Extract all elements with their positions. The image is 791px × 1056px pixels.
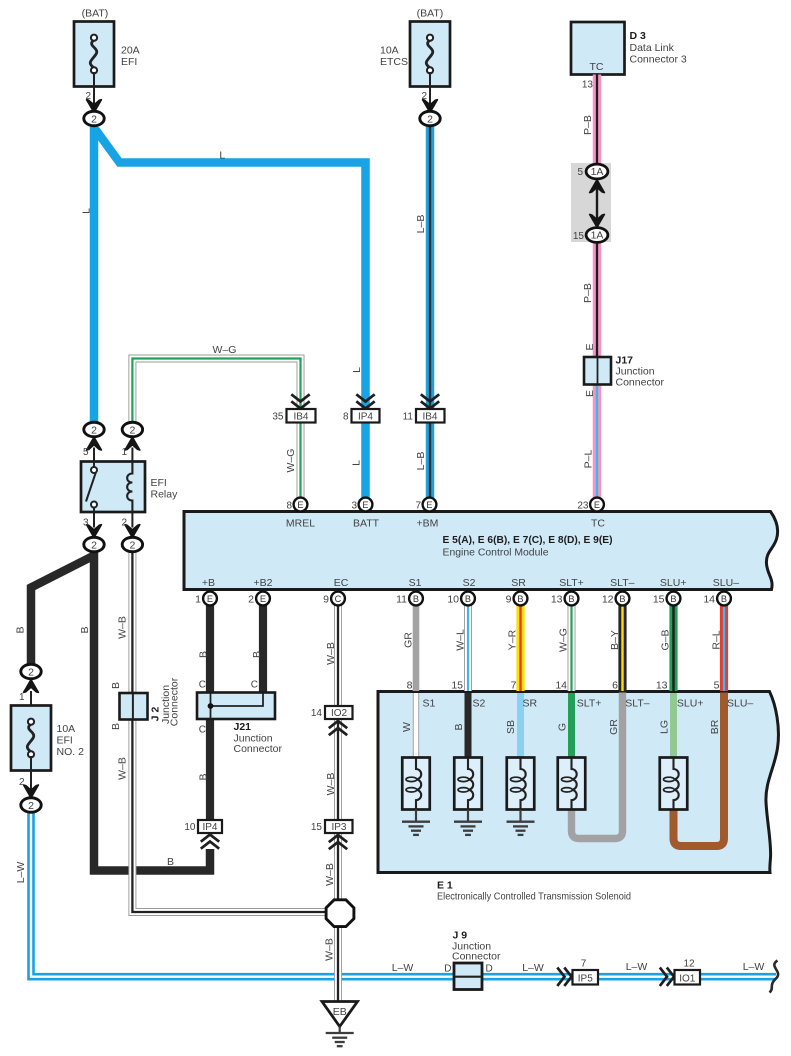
wire W-G from ECM SLT+ pin 13 to E1 pin 14 [568, 606, 576, 692]
wire L branch to IP4 and BATT [96, 130, 366, 499]
svg-text:15: 15 [653, 594, 665, 606]
connector IO2 14 with chevron [325, 706, 353, 719]
svg-text:14: 14 [555, 680, 567, 692]
chevron into IP5 [557, 968, 571, 986]
svg-text:B: B [110, 723, 122, 730]
svg-text:Engine Control Module: Engine Control Module [443, 547, 549, 559]
wire B +B2 from ECM pin 2 to J21 [259, 606, 267, 694]
J21 junction connector box [197, 693, 275, 720]
wire labels inside E1 [401, 719, 721, 735]
svg-text:D: D [486, 964, 493, 975]
E1 internal wire GR U-link solenoid 4 to pin 6 [572, 693, 623, 839]
svg-text:15: 15 [311, 822, 323, 833]
svg-text:TC: TC [590, 61, 604, 73]
svg-text:2: 2 [248, 594, 254, 606]
pin circle SLU- 14 B [717, 592, 731, 606]
wire L thick blue from EFI fuse to relay pin 5 [90, 126, 99, 422]
ground EB triangle [322, 1002, 358, 1047]
svg-text:7: 7 [511, 680, 517, 692]
svg-text:B: B [110, 682, 122, 689]
svg-text:14: 14 [311, 708, 323, 719]
svg-text:S1: S1 [409, 577, 422, 589]
svg-text:2: 2 [28, 800, 34, 812]
E1 internal wire LG to solenoid 5 [670, 693, 677, 758]
svg-text:SR: SR [511, 577, 526, 589]
svg-text:B–Y: B–Y [609, 630, 621, 650]
solenoid coil S1 [402, 758, 430, 810]
arrows below relay pins 3 and 2 [87, 525, 102, 538]
svg-text:1A: 1A [591, 229, 604, 241]
svg-text:2: 2 [28, 666, 34, 678]
svg-text:7: 7 [581, 959, 587, 970]
svg-text:11: 11 [396, 594, 407, 606]
svg-text:Relay: Relay [151, 489, 179, 501]
pin circle +B2 2 E [256, 592, 270, 606]
wire W-L from ECM S2 pin 10 to E1 pin 15 [464, 606, 472, 692]
svg-text:1A: 1A [591, 166, 604, 178]
svg-text:1: 1 [121, 447, 127, 458]
svg-text:E: E [362, 500, 368, 510]
wire B-Y from ECM SLT- pin 12 to E1 pin 6 [618, 606, 626, 692]
svg-text:(BAT): (BAT) [82, 8, 109, 20]
svg-text:10: 10 [184, 822, 196, 833]
svg-text:B: B [453, 723, 465, 730]
svg-text:BATT: BATT [353, 518, 380, 530]
svg-text:S2: S2 [473, 698, 486, 710]
arrow into connector below fuse ETCS [423, 100, 438, 113]
svg-text:1: 1 [195, 594, 201, 606]
svg-text:SLU+: SLU+ [660, 577, 687, 589]
E1 internal wire SB to solenoid 3 [517, 693, 524, 758]
svg-text:E 5(A), E 6(B), E 7(C), E 8(D): E 5(A), E 6(B), E 7(C), E 8(D), E 9(E) [443, 534, 613, 546]
svg-text:B: B [15, 626, 27, 633]
svg-text:E: E [594, 500, 600, 510]
chevron into IO1 [660, 968, 674, 986]
svg-text:IO1: IO1 [679, 973, 696, 984]
svg-text:EC: EC [334, 577, 349, 589]
pin circle SLT- 12 B [616, 592, 630, 606]
wire L-B from ETCS fuse to IB4 and +BM [426, 126, 435, 498]
svg-text:L: L [351, 367, 363, 373]
svg-text:9: 9 [506, 594, 512, 606]
svg-text:B: B [619, 594, 625, 604]
svg-text:E: E [207, 594, 213, 604]
pin circle +BM 7 E [423, 498, 437, 512]
svg-text:2: 2 [427, 113, 433, 125]
pin circle SLU+ 15 B [667, 592, 681, 606]
svg-text:P–L: P–L [583, 450, 595, 469]
wire P-L from J17 to ECM TC pin 23 [593, 385, 602, 499]
fuse 10A ETCS [410, 22, 450, 87]
wire B +B from ECM pin 1 through J21 to IP4 [206, 606, 214, 821]
svg-text:P–B: P–B [582, 115, 594, 135]
svg-text:GR: GR [608, 719, 620, 735]
svg-text:Connector: Connector [616, 377, 665, 389]
svg-text:Connector: Connector [452, 951, 501, 963]
svg-text:E: E [584, 390, 596, 397]
svg-text:8: 8 [407, 680, 413, 692]
node 2 below fuse ETCS [420, 111, 440, 126]
connector IP4 8 with chevron [356, 394, 374, 408]
svg-text:L–W: L–W [743, 961, 765, 973]
svg-text:14: 14 [703, 594, 715, 606]
svg-text:LG: LG [659, 720, 671, 734]
svg-text:+BM: +BM [417, 518, 439, 530]
svg-text:W–G: W–G [213, 344, 237, 356]
svg-text:13: 13 [551, 594, 563, 606]
wire W-B from ECM EC pin 9 through IO2 IP3 octagon to EB ground [334, 606, 342, 1002]
svg-text:W–B: W–B [325, 773, 337, 796]
svg-text:IP4: IP4 [358, 412, 373, 423]
E1 top pin numbers [407, 680, 720, 692]
svg-text:Connector 3: Connector 3 [630, 54, 687, 66]
E1 internal wire BR U-link solenoid 5 to pin 5 [674, 693, 725, 847]
svg-text:W–G: W–G [285, 449, 297, 473]
svg-text:SLT–: SLT– [625, 698, 649, 710]
node labels 1A [591, 166, 604, 242]
svg-text:2: 2 [129, 424, 135, 436]
svg-text:W–B: W–B [325, 642, 337, 665]
svg-text:EFI: EFI [121, 56, 137, 68]
svg-text:15: 15 [573, 231, 585, 242]
ground under solenoid SR [519, 810, 521, 822]
svg-text:IP3: IP3 [331, 822, 346, 833]
svg-text:L: L [351, 460, 363, 466]
wire labels L-W bottom [392, 961, 765, 974]
svg-text:Y–R: Y–R [507, 629, 519, 650]
svg-text:SLU+: SLU+ [677, 698, 704, 710]
node 2 above fuse EFI NO.2 [24, 680, 39, 693]
pin circle S2 10 B [461, 592, 475, 606]
svg-text:W: W [401, 722, 413, 732]
svg-text:15: 15 [451, 680, 463, 692]
svg-text:L–W: L–W [392, 962, 414, 974]
svg-text:IB4: IB4 [422, 412, 437, 423]
arrows into relay top nodes [87, 437, 102, 450]
svg-text:C: C [199, 680, 206, 691]
E1 internal wire G to solenoid 4 [568, 693, 575, 758]
relay coil [127, 462, 132, 513]
E1 solenoid box [378, 692, 778, 873]
svg-text:Electronically Controlled Tran: Electronically Controlled Transmission S… [437, 891, 631, 903]
svg-text:SLT–: SLT– [610, 577, 634, 589]
svg-text:B: B [198, 773, 210, 780]
fuse 20A EFI [74, 22, 114, 87]
svg-text:EB: EB [333, 1006, 347, 1018]
svg-text:W–G: W–G [558, 628, 570, 652]
connector IP5 7 [573, 970, 599, 985]
svg-text:EFI: EFI [151, 477, 167, 489]
svg-text:20A: 20A [121, 45, 140, 57]
svg-text:SLT+: SLT+ [559, 577, 584, 589]
J2 junction connector box [120, 693, 148, 720]
break squiggle at end of L-W wire [770, 961, 779, 993]
node 2 above relay pin 1 [122, 422, 142, 437]
svg-text:L–W: L–W [626, 961, 648, 973]
svg-text:2: 2 [91, 424, 97, 436]
wire labels ECM to E1 [403, 628, 723, 652]
svg-text:S1: S1 [423, 698, 436, 710]
wire B branch to fuse EFI NO.2 [31, 556, 94, 665]
svg-text:D 3: D 3 [630, 30, 647, 42]
svg-text:10A: 10A [57, 723, 76, 735]
wire P-B from D3 TC pin to shield connector [593, 75, 602, 165]
E1 internal wire B to solenoid 2 [465, 693, 472, 758]
svg-text:TC: TC [591, 518, 605, 530]
ground under solenoid S2 [467, 810, 469, 822]
svg-text:B: B [517, 594, 523, 604]
pin circle SLT+ 13 B [565, 592, 579, 606]
svg-text:7: 7 [415, 501, 421, 512]
svg-text:B: B [198, 651, 210, 658]
svg-text:L: L [219, 150, 225, 162]
connector IP3 15 with chevron [325, 820, 353, 833]
svg-text:BR: BR [709, 719, 721, 734]
relay pin stub wires with arrows [94, 448, 132, 528]
connector 1A pin 15 [586, 228, 608, 243]
svg-text:Connector: Connector [234, 743, 283, 755]
connector IB4 35 with chevron [291, 394, 309, 408]
svg-text:Data Link: Data Link [630, 42, 675, 54]
wire GR from ECM S1 pin 11 to E1 pin 8 [413, 606, 420, 692]
svg-text:2: 2 [91, 113, 97, 125]
J17 junction connector box [584, 357, 611, 385]
pin circle TC 23 E [590, 498, 604, 512]
svg-text:R–L: R–L [711, 630, 723, 649]
svg-text:2: 2 [91, 539, 97, 551]
svg-text:5: 5 [83, 447, 89, 458]
connector IP4 10 with chevron [198, 820, 222, 833]
svg-text:MREL: MREL [286, 518, 315, 530]
svg-text:Connector: Connector [169, 677, 181, 726]
svg-text:IP5: IP5 [578, 973, 593, 984]
wire G-B from ECM SLU+ pin 15 to E1 pin 13 [669, 606, 677, 692]
svg-text:B: B [79, 626, 91, 633]
solenoid coil S2 [454, 758, 482, 810]
svg-text:2: 2 [19, 777, 25, 788]
wire R-L from ECM SLU- pin 14 to E1 pin 5 [720, 606, 728, 692]
svg-text:SLU–: SLU– [713, 577, 739, 589]
node 2 above relay pin 5 [84, 422, 104, 437]
node 2 below relay pin 3 [84, 537, 104, 552]
svg-text:E: E [260, 594, 266, 604]
wire P-B from shield to J17 [593, 243, 602, 358]
wire L-W from fuse NO.2 along left edge and bottom [31, 812, 776, 977]
svg-text:B: B [568, 594, 574, 604]
svg-text:B: B [465, 594, 471, 604]
ECM bottom pin names [202, 577, 739, 589]
J9 junction connector box [454, 963, 482, 990]
solenoid coil SLT [558, 758, 586, 810]
svg-text:B: B [251, 651, 263, 658]
node labels 2 in ovals [28, 113, 433, 812]
ECM top pin names [286, 518, 606, 530]
EFI relay box [81, 462, 145, 513]
svg-text:2: 2 [85, 91, 91, 102]
ground under solenoid S1 [415, 810, 417, 822]
svg-text:E: E [426, 500, 432, 510]
wire Y-R from ECM SR pin 9 to E1 pin 7 [516, 606, 524, 692]
svg-text:35: 35 [272, 412, 284, 423]
svg-text:W–B: W–B [117, 757, 129, 780]
connector 1A pin 5 [586, 164, 608, 179]
svg-text:+B2: +B2 [254, 577, 273, 589]
D3 Data Link Connector box [571, 22, 625, 75]
svg-text:12: 12 [602, 594, 614, 606]
svg-text:D: D [444, 964, 451, 975]
E1 pin names [423, 698, 754, 710]
svg-text:1: 1 [19, 692, 25, 703]
arrow into connector below fuse EFI [87, 100, 102, 113]
E1 internal wire W to solenoid 1 [413, 693, 419, 758]
svg-text:+B: +B [202, 577, 215, 589]
wire W-B from relay pin 2 to splice octagon [132, 552, 327, 913]
svg-text:L–W: L–W [522, 962, 544, 974]
svg-text:SLT+: SLT+ [577, 698, 602, 710]
svg-text:C: C [251, 680, 258, 691]
svg-text:3: 3 [83, 518, 89, 529]
svg-text:W–B: W–B [324, 938, 336, 961]
solenoid coil SR [507, 758, 535, 810]
svg-text:13: 13 [656, 680, 668, 692]
svg-text:B: B [413, 594, 419, 604]
svg-text:2: 2 [121, 518, 127, 529]
svg-text:W–B: W–B [324, 863, 336, 886]
svg-text:L–W: L–W [15, 862, 27, 884]
svg-text:IP4: IP4 [202, 822, 217, 833]
svg-text:10A: 10A [380, 45, 399, 57]
wire W-G from relay pin 1 to IB4 and MREL [132, 359, 300, 499]
svg-text:9: 9 [323, 594, 329, 606]
relay switch contact [86, 462, 97, 513]
svg-text:6: 6 [612, 680, 618, 692]
pin circle S1 11 B [409, 592, 423, 606]
svg-text:3: 3 [351, 501, 357, 512]
ECM box E5 [184, 512, 778, 590]
svg-text:L–B: L–B [415, 215, 427, 234]
svg-text:5: 5 [714, 680, 720, 692]
svg-text:B: B [167, 856, 174, 868]
fuse 10A EFI NO.2 [11, 706, 51, 771]
svg-text:IB4: IB4 [293, 412, 308, 423]
svg-text:10: 10 [447, 594, 459, 606]
pin circle SR 9 B [514, 592, 528, 606]
svg-text:B: B [721, 594, 727, 604]
svg-text:S2: S2 [463, 577, 476, 589]
pin circle +B 1 E [203, 592, 217, 606]
svg-text:SLU–: SLU– [727, 698, 753, 710]
svg-text:2: 2 [129, 539, 135, 551]
ECM bottom pin numbers [195, 594, 715, 606]
svg-text:GR: GR [403, 632, 415, 648]
pin circle EC 9 C [331, 592, 345, 606]
svg-text:2: 2 [421, 91, 427, 102]
svg-text:5: 5 [577, 167, 583, 178]
svg-text:B: B [670, 594, 676, 604]
svg-text:W–B: W–B [117, 616, 129, 639]
arrow and node 2 below fuse EFI NO.2 [24, 785, 39, 798]
svg-text:SB: SB [505, 720, 517, 734]
connector IB4 11 with chevron [421, 394, 439, 408]
svg-text:G–B: G–B [660, 629, 672, 650]
pin circle MREL 8 E [294, 498, 308, 512]
svg-text:NO. 2: NO. 2 [57, 746, 85, 758]
svg-text:EFI: EFI [57, 735, 73, 747]
svg-text:C: C [335, 594, 342, 604]
svg-text:C: C [199, 725, 206, 736]
svg-text:23: 23 [577, 501, 589, 512]
svg-text:J21: J21 [234, 721, 252, 733]
svg-text:P–B: P–B [582, 283, 594, 303]
svg-text:8: 8 [343, 412, 349, 423]
svg-text:IO2: IO2 [331, 708, 348, 719]
svg-text:ETCS: ETCS [380, 56, 408, 68]
svg-text:8: 8 [286, 501, 292, 512]
svg-text:(BAT): (BAT) [417, 8, 444, 20]
node 2 below relay pin 2 [122, 537, 142, 552]
pin circle BATT 3 E [359, 498, 373, 512]
svg-text:13: 13 [582, 80, 594, 91]
svg-text:L: L [81, 208, 93, 214]
svg-text:11: 11 [403, 412, 414, 423]
wire B from relay pin 3 down, right, up into IP4 [94, 552, 210, 871]
svg-text:E: E [297, 500, 303, 510]
svg-text:E: E [584, 343, 596, 350]
solenoid coil SLU [660, 758, 688, 810]
shield double arrow between 1A connectors [596, 184, 598, 222]
svg-text:G: G [557, 723, 569, 731]
node 2 below fuse EFI [84, 111, 104, 126]
svg-text:W–L: W–L [455, 629, 467, 651]
connector IO1 12 [675, 970, 701, 985]
splice octagon [326, 900, 354, 927]
svg-text:SR: SR [523, 698, 538, 710]
gray shield block on D3 wire [571, 163, 611, 242]
svg-text:12: 12 [683, 959, 695, 970]
svg-text:L–B: L–B [415, 452, 427, 471]
